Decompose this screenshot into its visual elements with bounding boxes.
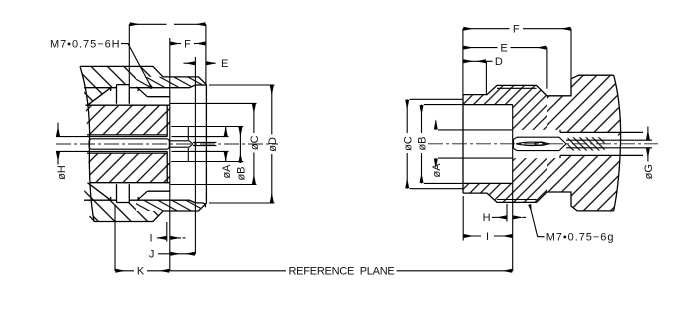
F dim right bbox=[463, 28, 510, 30]
oeA extension top bbox=[172, 136, 229, 138]
M7 leader bbox=[121, 44, 152, 89]
right oeC ext lines bbox=[410, 99, 464, 188]
oeB extension top bbox=[171, 126, 243, 128]
left jack thread band top bbox=[136, 77, 206, 88]
svg-text:D: D bbox=[495, 56, 503, 68]
pin hole extension lines bbox=[193, 142, 216, 145]
right tube inner wall bottom bbox=[463, 182, 513, 184]
right contact body bbox=[514, 137, 560, 150]
right body bore lines bbox=[560, 132, 643, 155]
oeA extension bottom bbox=[172, 150, 229, 152]
right tube inner wall top bbox=[463, 104, 513, 106]
oeD dim bbox=[271, 85, 273, 135]
svg-text:øC: øC bbox=[402, 136, 414, 151]
right E right ext line bbox=[546, 48, 548, 89]
front face extension up bbox=[205, 24, 207, 84]
svg-text:øD: øD bbox=[267, 137, 279, 152]
left front opening top edge bbox=[196, 84, 207, 86]
oeB extension bottom bbox=[171, 161, 243, 163]
svg-text:E: E bbox=[500, 42, 507, 54]
oeC extension top bbox=[170, 102, 256, 104]
left groove white bottom bbox=[117, 184, 130, 202]
socket contact body bbox=[89, 139, 169, 149]
svg-text:øA: øA bbox=[221, 164, 233, 179]
M7-6g leader bbox=[530, 205, 545, 237]
svg-text:F: F bbox=[513, 24, 520, 36]
J dim bbox=[158, 253, 170, 255]
left groove white top bbox=[117, 85, 130, 104]
K extension line bbox=[114, 205, 116, 271]
svg-text:J: J bbox=[149, 249, 155, 261]
oeC dim right bbox=[406, 99, 408, 133]
right F/E left ext line bbox=[462, 29, 464, 95]
right cable core lines bbox=[566, 140, 652, 148]
left jack insulator bottom hatch bbox=[88, 153, 170, 183]
left insulator front face bbox=[166, 105, 168, 183]
left groove top walls bbox=[117, 85, 130, 104]
oeD extension top bbox=[209, 84, 275, 86]
bore cone bottom bbox=[88, 183, 111, 201]
left front opening bottom edge bbox=[196, 203, 206, 207]
left bore to socket lines bbox=[92, 137, 167, 152]
oeG dim right bbox=[647, 127, 649, 141]
right oeB ext lines bbox=[424, 105, 463, 184]
left bore cone hatch top bbox=[84, 88, 111, 106]
right body top hatch bbox=[547, 75, 620, 137]
bore face ext below bbox=[166, 222, 168, 242]
oeC dim bbox=[253, 103, 255, 133]
right inner step lines bbox=[559, 130, 561, 158]
svg-text:øA: øA bbox=[431, 163, 443, 178]
socket tip tube bbox=[169, 141, 192, 147]
left jack insulator top hatch bbox=[86, 105, 171, 135]
bore cone top bbox=[88, 88, 111, 106]
right outer profile bottom bbox=[463, 192, 614, 211]
I dim bbox=[157, 237, 167, 239]
left break edge bbox=[80, 66, 94, 221]
left thread minor line bottom bbox=[147, 190, 170, 192]
left centerline bbox=[56, 143, 278, 145]
left jack shell top hatch bbox=[80, 66, 163, 87]
long F/reference extension line bbox=[169, 38, 171, 271]
oeH dim bbox=[57, 123, 59, 137]
E/J extension line bbox=[194, 57, 196, 254]
svg-text:M7•0.75−6H: M7•0.75−6H bbox=[50, 39, 121, 51]
H dim right bbox=[492, 216, 507, 218]
right body bottom hatch bbox=[547, 150, 620, 211]
left cavity top line bbox=[87, 134, 167, 136]
socket boss face bbox=[187, 127, 189, 162]
svg-text:M7•0.75−6g: M7•0.75−6g bbox=[546, 232, 615, 244]
left outer profile bottom bbox=[94, 203, 206, 221]
left shell bore step chamfer bottom bbox=[137, 191, 147, 200]
svg-text:øG: øG bbox=[643, 164, 655, 179]
left shell inner bore bottom bbox=[84, 200, 196, 203]
E dim right bbox=[463, 47, 498, 49]
svg-text:E: E bbox=[221, 58, 228, 70]
left bore cone hatch bottom bbox=[84, 183, 111, 201]
F dim bbox=[170, 43, 181, 45]
left jack thread band bottom bbox=[136, 200, 206, 211]
right contact cone bbox=[559, 137, 566, 150]
right plug metal top hatch bbox=[463, 85, 547, 129]
svg-text:øH: øH bbox=[56, 165, 68, 180]
oeB dim bbox=[239, 127, 241, 164]
right D ext line bbox=[485, 61, 487, 94]
svg-text:I: I bbox=[149, 233, 152, 245]
left insulator top line bbox=[86, 104, 171, 106]
E dim bbox=[184, 62, 196, 64]
right F right ext line bbox=[570, 29, 572, 79]
right H ext line bbox=[506, 204, 508, 222]
svg-text:I: I bbox=[486, 231, 489, 243]
left shell bore step chamfer top bbox=[137, 88, 147, 97]
svg-text:H: H bbox=[483, 212, 491, 224]
svg-text:K: K bbox=[137, 266, 145, 278]
top dim line bbox=[129, 23, 166, 25]
oeB dim right bbox=[421, 105, 423, 133]
right thread root line top bbox=[497, 87, 537, 89]
groove dim extension line bbox=[128, 24, 130, 84]
groove outer stubs top bbox=[111, 88, 139, 91]
left insulator bottom line bbox=[90, 182, 171, 184]
right thread root line bottom bbox=[497, 199, 537, 201]
svg-text:øB: øB bbox=[236, 166, 248, 180]
svg-text:øB: øB bbox=[417, 136, 429, 150]
right contact slot lens bbox=[516, 142, 549, 145]
oeD extension bottom bbox=[209, 202, 275, 204]
oeA dim bbox=[225, 127, 227, 137]
left jack shell bottom hatch bbox=[90, 200, 164, 221]
right tip face bbox=[462, 95, 464, 194]
right break edge bbox=[614, 75, 621, 211]
right oeA/bore lines bbox=[438, 130, 513, 158]
oeA dim right bbox=[435, 121, 437, 130]
right I ext line bbox=[462, 196, 464, 241]
svg-text:øC: øC bbox=[249, 135, 261, 150]
svg-text:F: F bbox=[184, 38, 191, 50]
left bottom corner chamfer bbox=[90, 216, 95, 222]
right plug metal bottom hatch bbox=[463, 158, 547, 202]
K dim + reference plane line bbox=[115, 270, 134, 272]
left thread minor line top bbox=[147, 96, 170, 98]
D dim right bbox=[463, 60, 487, 62]
left groove bottom walls bbox=[117, 184, 130, 202]
groove outer stubs bottom bbox=[111, 197, 139, 200]
left bore / oeH lines bbox=[56, 137, 92, 152]
right insulator face / reference line bbox=[512, 105, 514, 272]
I dim right bbox=[463, 235, 481, 237]
left front face bbox=[205, 85, 207, 204]
svg-text:REFERENCE PLANE: REFERENCE PLANE bbox=[288, 266, 394, 278]
left outer profile top bbox=[80, 66, 206, 84]
right centerline bbox=[428, 143, 658, 145]
left shell inner bore top bbox=[84, 85, 196, 88]
left cavity bottom line bbox=[87, 152, 167, 154]
oeC extension bottom bbox=[170, 184, 256, 186]
right outer profile top bbox=[463, 75, 614, 96]
right crimp hatch bbox=[568, 137, 605, 150]
